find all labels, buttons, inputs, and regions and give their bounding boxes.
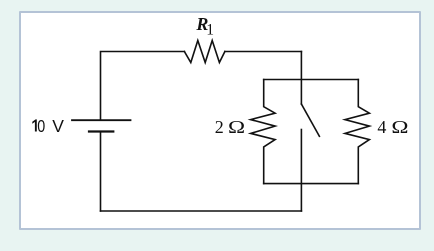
wire: bottom rail of parallel network	[264, 183, 359, 185]
battery V1: short negative plate	[89, 130, 113, 132]
svg-text:4: 4	[377, 117, 386, 137]
svg-text:V: V	[52, 116, 64, 136]
wire: switch bottom terminal down through bottom rail to main bottom wire	[300, 130, 302, 212]
svg-text:0: 0	[37, 118, 45, 137]
wire: top rail of parallel network	[264, 79, 359, 81]
battery V1: long positive plate	[72, 119, 131, 121]
svg-text:Ω: Ω	[391, 118, 408, 137]
resistor 2 ohm (left branch, with leads)	[251, 80, 275, 184]
wire: battery - down left side	[100, 132, 102, 212]
resistor 4 ohm (right branch, with leads)	[345, 80, 369, 184]
svg-text:2: 2	[215, 117, 224, 137]
svg-text:1: 1	[206, 22, 214, 39]
wire: R1 right lead to top-right corner	[225, 51, 302, 53]
resistor R1	[184, 41, 225, 63]
switch S1 (open blade)	[301, 104, 319, 136]
svg-text:Ω: Ω	[228, 118, 245, 137]
label 10 V (battery value)	[32, 119, 37, 131]
wire: left vertical top (battery + to top-left corner) and top wire to R1	[101, 52, 185, 121]
wire: main bottom wire	[101, 210, 302, 212]
wire: vertical drop from top wire through top rail to switch contact	[300, 52, 302, 105]
